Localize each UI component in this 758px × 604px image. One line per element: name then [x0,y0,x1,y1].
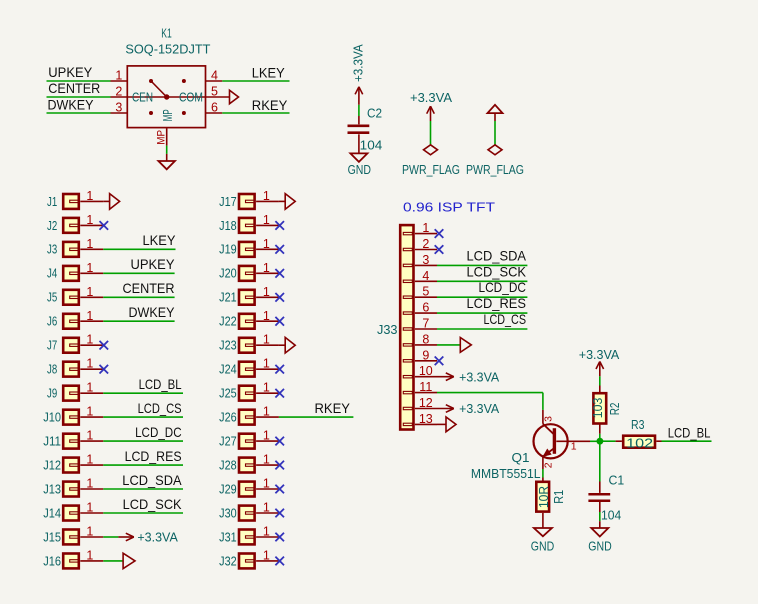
wire node to R3 [603,440,616,442]
svg-text:LCD_SDA: LCD_SDA [122,473,182,488]
svg-text:GND: GND [531,539,554,554]
connector J21 [219,290,254,305]
Q1 collector [543,410,555,435]
svg-text:MP: MP [160,109,175,121]
J10 pin 1 [80,416,103,418]
J33 pin 11 [415,392,437,394]
svg-text:GND: GND [588,539,611,554]
connector J16 [43,553,79,568]
J2 pin 1 [80,224,103,226]
power +3.3VA arrow above C2 [355,87,363,105]
J21 pin 1 number [263,285,270,299]
power +3.3VA at J33 pin 10 [437,369,500,384]
svg-text:2: 2 [422,237,429,251]
connector J4 [47,266,79,281]
wire J5 CENTER [103,296,174,298]
wire J26 RKEY [279,416,354,418]
J16 pin 1 [80,560,103,562]
J33 pin 13 [415,423,437,425]
svg-text:1: 1 [86,525,93,539]
svg-text:+3.3VA: +3.3VA [579,347,620,362]
svg-text:12: 12 [419,396,433,410]
svg-text:UPKEY: UPKEY [131,257,175,272]
J33 pin 3 number [422,253,429,267]
svg-text:LCD_DC: LCD_DC [479,280,527,295]
GND text below C1 [588,539,611,554]
power symbol 2 triangle [488,105,503,121]
K1 pin 1 number [115,69,122,83]
connector J23 [219,338,254,353]
R1 to ground [542,513,544,528]
svg-text:CENTER: CENTER [123,281,175,296]
svg-text:PWR_FLAG: PWR_FLAG [466,162,524,177]
K1 value SOQ-152DJTT [125,42,210,57]
note 0.96 ISP TFT [403,201,495,215]
svg-text:1: 1 [86,213,93,227]
label LCD_CS at J10 [138,401,182,416]
svg-text:J16: J16 [43,553,61,568]
R2 top pin [599,386,601,393]
no-connect J25 [275,389,284,398]
svg-text:+3.3VA: +3.3VA [350,44,365,82]
J24 pin 1 [256,368,279,370]
connector J6 [47,314,79,329]
J33 pin 7 notch [403,328,412,330]
no-connect J7 [100,341,109,350]
J14 pin 1 number [86,501,93,515]
svg-text:LCD_SDA: LCD_SDA [467,248,527,263]
connector J9 [47,386,79,401]
wire +3.3VA to PWR_FLAG [430,121,432,145]
svg-text:J6: J6 [47,314,57,329]
resistor R3 body [623,436,655,448]
K1 pin 4 number [211,69,218,83]
svg-text:1: 1 [263,477,270,491]
svg-text:J31: J31 [219,529,237,544]
wire J33 pin 3 LCD_SDA [437,264,527,266]
svg-text:C1: C1 [609,473,625,488]
resistor R1 body [536,482,549,512]
K1 pin name CEN [132,89,153,104]
power +3.3VA text (PWR_FLAG net) [410,90,452,105]
PWR_FLAG symbol 1 [424,145,438,155]
svg-text:J14: J14 [43,505,61,520]
J4 pin 1 number [86,261,93,275]
J11 pin 1 number [86,429,93,443]
wire node to C1 [599,444,601,481]
no-connect J29 [275,485,284,494]
connector J27 [219,434,254,449]
wire +3.3VA to C2 [358,105,360,116]
wire UPKEY to K1 pin 1 [47,80,111,82]
J18 pin 1 number [263,213,270,227]
svg-text:J9: J9 [47,386,57,401]
svg-text:1: 1 [263,525,270,539]
J23 pin 1 number [263,333,270,347]
svg-text:1: 1 [263,501,270,515]
svg-text:LCD_BL: LCD_BL [139,377,182,392]
R3 right pin [656,440,661,442]
wire J33 pin 6 LCD_RES [437,312,527,314]
J6 pin 1 [80,320,103,322]
K1 pin 5 number [211,85,218,99]
svg-text:LKEY: LKEY [143,233,176,248]
connector J14 [43,505,79,520]
wire Q1 base to node [590,440,598,442]
J19 pin 1 [256,248,279,250]
connector J2 [47,218,79,233]
J33 pin 10 [415,376,437,378]
power +3.3VA at J33 pin 12 [437,401,500,416]
J33 pin 2 [415,249,437,251]
J33 pin 13 notch [403,423,412,425]
J1 unconnected arrow [103,194,119,210]
svg-text:102: 102 [626,435,653,450]
wire J13 LCD_SDA [103,488,183,490]
svg-text:J24: J24 [219,362,237,377]
J27 pin 1 [256,440,279,442]
wire CENTER to K1 pin 2 [47,96,111,98]
svg-text:RKEY: RKEY [315,401,351,416]
J2 pin 1 number [86,213,93,227]
J33 pin 11 notch [403,391,412,393]
wire +3.3VA to R2 [599,376,601,385]
wire J6 DWKEY [103,320,174,322]
J19 pin 1 number [263,237,270,251]
svg-text:1: 1 [263,333,270,347]
wire J11 LCD_DC [103,440,183,442]
label UPKEY [48,65,92,80]
label DWKEY [48,97,94,112]
svg-text:1: 1 [86,309,93,323]
svg-text:104: 104 [601,507,621,522]
svg-text:1: 1 [86,477,93,491]
K1 pin 3 number [115,101,122,115]
svg-text:LCD_CS: LCD_CS [484,312,527,327]
no-connect J30 [275,509,284,518]
K1 switch blade [151,81,167,97]
no-connect J21 [275,293,284,302]
J33 pin 8 number [422,332,429,346]
K1 pin 6 [205,112,222,114]
svg-text:MP: MP [156,130,168,145]
wire J33 pin 8 dangling [437,344,460,346]
svg-text:103: 103 [590,398,605,419]
J12 pin 1 [80,464,103,466]
Q1 base bar [553,428,556,454]
J33 pin 3 notch [403,264,412,266]
svg-text:CENTER: CENTER [48,81,100,96]
ground GND below C1 [591,528,608,537]
svg-text:1: 1 [86,501,93,515]
J13 pin 1 [80,488,103,490]
J17 unconnected arrow [279,194,295,210]
J20 pin 1 [256,272,279,274]
svg-text:CEN: CEN [132,89,153,104]
svg-text:K1: K1 [161,26,172,41]
J31 pin 1 number [263,525,270,539]
svg-text:1: 1 [86,237,93,251]
J33 pin 6 notch [403,312,412,314]
connector J17 [219,194,254,209]
label LCD_DC at J33 [479,280,527,295]
J33 pin 12 number [419,396,433,410]
svg-text:J1: J1 [47,194,57,209]
J33 pin 6 [415,312,437,314]
svg-text:J5: J5 [47,290,57,305]
connector J22 [219,314,254,329]
svg-text:J30: J30 [219,505,237,520]
svg-text:1: 1 [263,453,270,467]
wire R3 to LCD_BL [662,440,712,442]
K1 common bar [127,96,205,98]
J33 pin 6 number [422,301,429,315]
svg-text:R2: R2 [607,403,622,416]
wire R2 to node [599,434,601,441]
J31 pin 1 [256,536,279,538]
J33 pin 10 number [419,364,433,378]
J33 pin 7 number [422,317,429,331]
svg-text:LCD_RES: LCD_RES [125,449,182,464]
J33 pin 1 number [422,221,429,235]
svg-text:LCD_BL: LCD_BL [668,426,711,441]
wire J33 pin 7 LCD_CS [437,328,527,330]
J33 pin 5 [415,296,437,298]
capacitor C2 [348,116,370,153]
R2 value 103 [590,398,605,419]
svg-text:LCD_CS: LCD_CS [138,401,182,416]
svg-text:1: 1 [263,213,270,227]
J33 pin 9 notch [403,360,412,362]
no-connect J8 [100,365,109,374]
svg-text:8: 8 [422,332,429,346]
no-connect J28 [275,461,284,470]
J33 pin 8 [415,344,437,346]
connector J10 [43,410,79,425]
label LCD_BL at R3 [668,426,711,441]
svg-text:GND: GND [348,162,371,177]
label LCD_SCK at J33 [467,264,527,279]
connector J18 [219,218,254,233]
svg-text:6: 6 [422,301,429,315]
wire J16 dangling [103,560,123,562]
label LCD_DC at J11 [135,425,182,440]
J33 pin 9 [415,360,437,362]
power +3.3VA arrow (PWR_FLAG net) [427,106,435,121]
R1 value 10R [536,486,551,508]
svg-text:J10: J10 [43,410,61,425]
GND text below R1 [531,539,554,554]
no-connect J2 [100,221,109,230]
J7 pin 1 number [86,333,93,347]
J9 pin 1 [80,392,103,394]
wire power to PWR_FLAG 2 [494,121,496,145]
label LCD_BL at J9 [139,377,182,392]
J22 pin 1 [256,320,279,322]
J23 unconnected arrow [279,337,295,353]
label LCD_CS at J33 [484,312,527,327]
label LCD_RES at J12 [125,449,182,464]
GND text below C2 [348,162,371,177]
connector J19 [219,242,254,257]
svg-text:LCD_SCK: LCD_SCK [123,497,182,512]
J9 pin 1 number [86,381,93,395]
svg-text:5: 5 [211,85,218,99]
svg-text:J21: J21 [219,290,237,305]
K1 pin 5 [205,96,229,98]
K1 pin 4 [205,80,222,82]
connector J24 [219,362,254,377]
svg-text:J4: J4 [47,266,57,281]
no-connect J33 pin 2 [435,245,444,254]
svg-text:1: 1 [263,357,270,371]
connector J30 [219,505,254,520]
svg-text:J26: J26 [219,410,237,425]
J27 pin 1 number [263,429,270,443]
J33 pin 3 [415,264,437,266]
J33 pin 1 [415,233,437,235]
connector J12 [43,458,79,473]
svg-text:J13: J13 [43,481,61,496]
no-connect J20 [275,269,284,278]
svg-text:J8: J8 [47,362,57,377]
J30 pin 1 number [263,501,270,515]
J30 pin 1 [256,512,279,514]
svg-text:LKEY: LKEY [252,66,285,81]
svg-text:1: 1 [422,221,429,235]
wire J33 pin 13 dangling [437,423,446,425]
connector J11 [43,434,79,449]
svg-text:J29: J29 [219,481,237,496]
PWR_FLAG text 2 [466,162,524,177]
svg-text:1: 1 [263,261,270,275]
svg-text:1: 1 [263,237,270,251]
wire DWKEY to K1 pin 3 [47,112,111,114]
connector J13 [43,481,79,496]
svg-text:7: 7 [422,317,429,331]
connector J1 [47,194,79,209]
svg-text:1: 1 [86,333,93,347]
svg-text:1: 1 [86,429,93,443]
J24 pin 1 number [263,357,270,371]
R3 value 102 [626,435,653,450]
label DWKEY at J6 [129,305,175,320]
svg-text:1: 1 [263,309,270,323]
svg-text:1: 1 [263,285,270,299]
J14 pin 1 [80,512,103,514]
svg-text:1: 1 [86,381,93,395]
C1 reference [609,473,625,488]
K1 contact dots [149,79,186,115]
J3 pin 1 number [86,237,93,251]
J29 pin 1 number [263,477,270,491]
connector J32 [219,553,254,568]
svg-text:13: 13 [419,412,433,426]
no-connect J33 pin 9 [435,357,444,366]
svg-text:SOQ-152DJTT: SOQ-152DJTT [125,42,210,57]
svg-text:R3: R3 [631,417,645,432]
svg-text:J33: J33 [377,322,398,337]
J17 pin 1 [256,200,279,202]
J28 pin 1 [256,464,279,466]
svg-text:1: 1 [86,261,93,275]
J28 pin 1 number [263,453,270,467]
svg-text:UPKEY: UPKEY [48,65,92,80]
Q1 pin 3 number [543,416,555,422]
wire K1-MP to ground [166,146,168,154]
J8 pin 1 number [86,357,93,371]
svg-text:MMBT5551L: MMBT5551L [471,466,541,481]
wire J12 LCD_RES [103,464,183,466]
R1 reference [551,490,566,504]
svg-text:LCD_SCK: LCD_SCK [467,264,527,279]
C1 value 104 [601,507,621,522]
junction node dot [597,438,604,445]
svg-text:C2: C2 [367,105,382,120]
label LCD_SDA at J33 [467,248,527,263]
connector J25 [219,386,254,401]
Q1 value MMBT5551L [471,466,541,481]
no-connect J19 [275,245,284,254]
R2 reference [607,403,622,416]
Q1 reference [512,450,530,465]
J33 pin 4 notch [403,280,412,282]
svg-text:3: 3 [543,416,555,422]
svg-text:LCD_DC: LCD_DC [135,425,182,440]
J33 pin 12 notch [403,407,412,409]
J25 pin 1 number [263,381,270,395]
no-connect J24 [275,365,284,374]
connector J5 [47,290,79,305]
connector J28 [219,458,254,473]
J12 pin 1 number [86,453,93,467]
J33 pin 7 [415,328,437,330]
wire J15 to +3.3VA [103,536,118,538]
wire J3 LKEY [103,248,175,250]
J33 pin 5 notch [403,296,412,298]
K1 pin name COM [179,89,203,104]
wire Q1 emitter to R1 [542,469,544,482]
no-connect J32 [275,557,284,566]
K1 body [127,66,205,128]
svg-text:J18: J18 [219,218,237,233]
svg-text:1: 1 [263,189,270,203]
svg-text:J15: J15 [43,529,61,544]
svg-text:J3: J3 [47,242,57,257]
svg-text:3: 3 [115,101,122,115]
svg-text:J27: J27 [219,434,237,449]
J33 pin 10 notch [403,376,412,378]
wire J4 UPKEY [103,272,174,274]
svg-text:PWR_FLAG: PWR_FLAG [402,162,460,177]
J26 pin 1 [256,416,279,418]
svg-text:J19: J19 [219,242,237,257]
R2 bottom pin [599,424,601,433]
svg-text:J25: J25 [219,386,237,401]
label UPKEY at J4 [131,257,175,272]
Q1 emitter [543,448,555,469]
svg-text:DWKEY: DWKEY [48,97,94,112]
power +3.3VA arrow above R2 [596,362,604,377]
ground GND below C2 [350,153,367,162]
svg-text:J28: J28 [219,458,237,473]
PWR_FLAG text 1 [402,162,460,177]
J33 pin 13 unconnected arrow [446,417,456,432]
no-connect J18 [275,221,284,230]
svg-text:DWKEY: DWKEY [129,305,175,320]
K1 pin 6 number [211,101,218,115]
J16 unconnected arrow [123,553,135,568]
